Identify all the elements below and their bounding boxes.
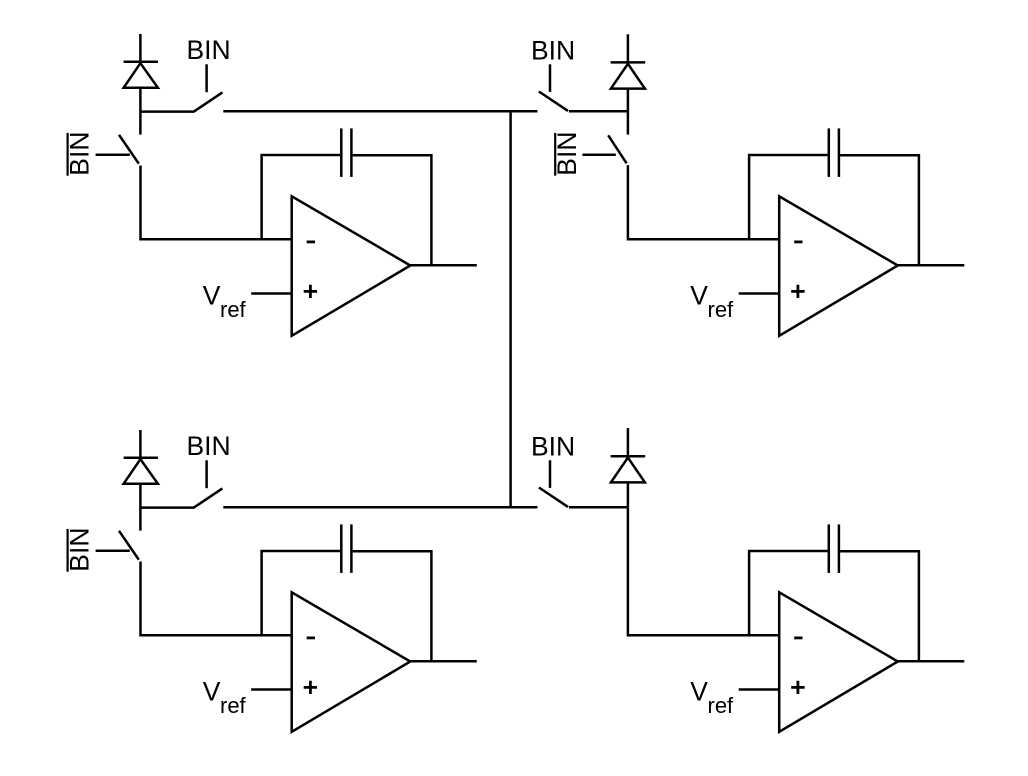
svg-text:V: V (690, 281, 708, 311)
wire op-amp U2 output (897, 264, 964, 267)
svg-text:BIN: BIN (64, 528, 94, 572)
label BIN-bar for S3b (64, 528, 94, 572)
label Vref for U1 non-inverting input (203, 281, 247, 322)
svg-text:BIN: BIN (531, 432, 575, 462)
svg-text:ref: ref (708, 297, 735, 322)
wire S3a to bus (row bus wire) (223, 506, 537, 509)
svg-text:BIN: BIN (187, 431, 231, 461)
svg-text:V: V (203, 677, 221, 707)
wire S1b to op-amp U1 inverting input (141, 166, 292, 240)
wire op-amp U4 output (897, 660, 964, 663)
op-amp U3 (292, 592, 411, 732)
svg-text:BIN: BIN (552, 132, 582, 176)
label Vref for U3 non-inverting input (203, 677, 247, 718)
svg-text:ref: ref (708, 693, 735, 718)
wire S4a to photodiode D4 (569, 506, 628, 509)
capacitor C1 (341, 128, 351, 177)
svg-text:V: V (690, 677, 708, 707)
switch S2a (BIN) (539, 64, 568, 111)
switch S1a (BIN) (140, 64, 222, 112)
wire S3b to op-amp U3 inverting input (141, 562, 292, 636)
wire capacitor C3 right plate to op-amp U3 output (353, 551, 432, 661)
svg-text:BIN: BIN (187, 35, 231, 65)
op-amp U1 (292, 196, 411, 335)
wire inverting node to capacitor C4 left plate (749, 551, 828, 635)
wire S2a to photodiode D2 (569, 110, 628, 113)
switch S3a (BIN) (140, 460, 222, 508)
wire op-amp U1 output (410, 264, 477, 267)
label Vref for U4 non-inverting input (690, 677, 734, 718)
svg-text:BIN: BIN (64, 132, 94, 176)
wire op-amp U3 output (410, 660, 477, 663)
wire S1a to bus (row bus wire) (223, 110, 537, 113)
photodiode D2 (611, 34, 646, 134)
photodiode D4 (611, 428, 646, 507)
svg-text:ref: ref (220, 297, 247, 322)
wire capacitor C2 right plate to op-amp U2 output (840, 155, 919, 265)
wire photodiode D4 to op-amp U4 inverting input (628, 507, 779, 635)
switch S3b (BIN-bar) (96, 531, 139, 560)
wire capacitor C4 right plate to op-amp U4 output (840, 551, 919, 661)
label BIN-bar for S1b (64, 132, 94, 176)
capacitor C2 (829, 128, 839, 177)
label BIN-bar for S2b (552, 132, 582, 176)
photodiode D1 (124, 34, 158, 135)
svg-text:V: V (203, 281, 221, 311)
label Vref for U2 non-inverting input (690, 281, 734, 322)
wire inverting node to capacitor C3 left plate (262, 551, 341, 635)
wire S2b to op-amp U2 inverting input (628, 165, 779, 239)
wire Vref to op-amp U4 non-inverting input (739, 688, 780, 691)
svg-text:BIN: BIN (531, 36, 575, 66)
wire capacitor C1 right plate to op-amp U1 output (353, 155, 432, 265)
op-amp U4 (779, 592, 898, 732)
op-amp U2 (779, 196, 898, 335)
capacitor C3 (341, 524, 351, 573)
switch S4a (BIN) (539, 460, 568, 507)
wire Vref to op-amp U3 non-inverting input (251, 688, 292, 691)
switch S2b (BIN-bar) (582, 135, 626, 163)
capacitor C4 (829, 524, 839, 573)
wire Vref to op-amp U1 non-inverting input (251, 292, 292, 295)
wire inverting node to capacitor C2 left plate (749, 155, 828, 239)
photodiode D3 (124, 430, 158, 531)
wire inverting node to capacitor C1 left plate (262, 155, 341, 239)
svg-text:ref: ref (220, 693, 247, 718)
wire binning bus (vertical column) (509, 111, 512, 507)
switch S1b (BIN-bar) (96, 135, 139, 164)
wire Vref to op-amp U2 non-inverting input (739, 292, 780, 295)
